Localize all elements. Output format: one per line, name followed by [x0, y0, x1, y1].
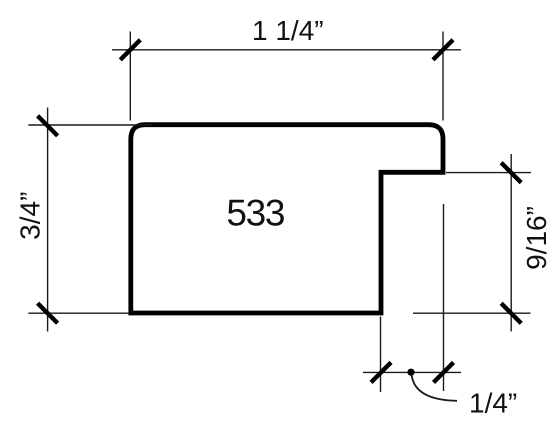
svg-text:533: 533 [226, 193, 284, 234]
dimension bottom 1/4": dimension line [363, 371, 461, 373]
svg-text:1 1/4”: 1 1/4” [252, 15, 324, 46]
dimension bottom 1/4": leader curve [412, 374, 458, 401]
dimension left 3/4": dimension line [47, 108, 49, 332]
dimension right 9/16": tick top [501, 163, 521, 183]
svg-text:1/4”: 1/4” [469, 387, 517, 418]
moulding profile 533 outline [131, 125, 443, 313]
dimension top 1 1/4": dimension line [112, 49, 461, 51]
dimension right 9/16": dimension line [510, 154, 512, 332]
dimension bottom 1/4": leader dot [407, 369, 414, 376]
dimension bottom 1/4": tick left [371, 362, 391, 382]
dimension top 1 1/4": extension line right [442, 32, 444, 121]
dimension bottom 1/4": tick right [434, 362, 454, 382]
svg-text:3/4”: 3/4” [15, 192, 46, 240]
dimension right 9/16": extension line bottom [413, 312, 531, 314]
dimension left 3/4": extension line top [28, 124, 152, 126]
dimension left 3/4": tick top [38, 116, 58, 136]
dimension left 3/4": extension line bottom [28, 312, 129, 314]
dimension right 9/16": tick bottom [501, 303, 521, 323]
dimension bottom 1/4": extension line left (from profile step) [380, 317, 382, 393]
svg-text:9/16”: 9/16” [521, 206, 552, 270]
dimension top 1 1/4": extension line left [129, 32, 131, 121]
dimension right 9/16": extension line top (from rabbet lip) [446, 172, 531, 174]
dimension top 1 1/4": tick left [120, 40, 140, 60]
dimension bottom 1/4": extension line right (from rabbet lip edge) [443, 204, 445, 391]
dimension top 1 1/4": tick right [433, 40, 453, 60]
dimension left 3/4": tick bottom [38, 303, 58, 323]
